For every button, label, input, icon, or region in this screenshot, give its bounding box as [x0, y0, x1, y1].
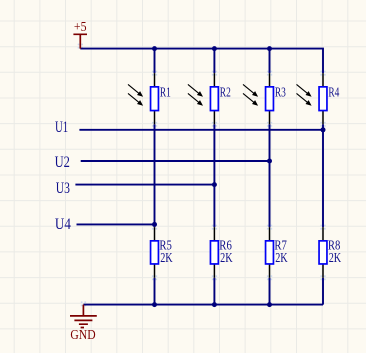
svg-text:U1: U1 [55, 117, 68, 136]
svg-text:+5: +5 [74, 20, 87, 35]
svg-text:U4: U4 [55, 214, 71, 233]
svg-text:R1: R1 [160, 85, 171, 100]
svg-text:U2: U2 [55, 152, 70, 171]
svg-text:R3: R3 [275, 85, 286, 100]
svg-text:2K: 2K [160, 251, 173, 266]
svg-text:R2: R2 [220, 85, 231, 100]
svg-text:2K: 2K [329, 251, 342, 266]
svg-text:R4: R4 [328, 85, 339, 100]
svg-text:GND: GND [70, 327, 95, 342]
svg-text:U3: U3 [56, 178, 70, 197]
svg-text:2K: 2K [275, 251, 288, 266]
svg-text:2K: 2K [220, 251, 233, 266]
